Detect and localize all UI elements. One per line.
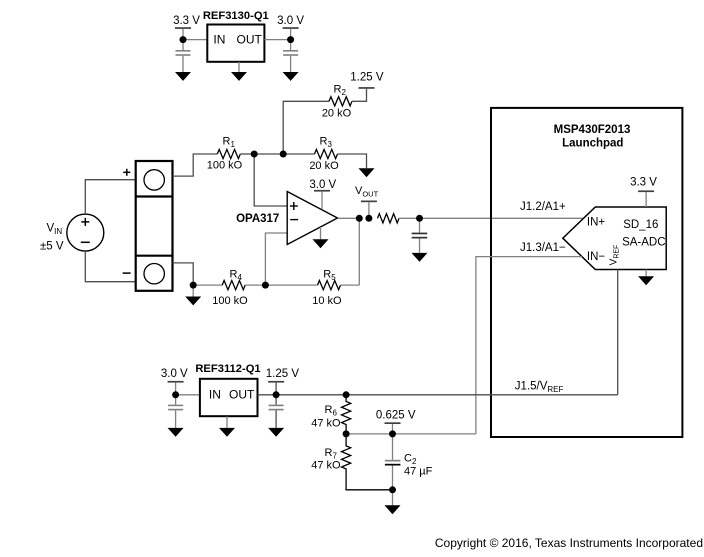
svg-text:J1.3/A1−: J1.3/A1− [520, 242, 566, 254]
svg-text:REF3112-Q1: REF3112-Q1 [195, 363, 260, 375]
ground (REF3112) [219, 428, 235, 437]
svg-text:MSP430F2013: MSP430F2013 [554, 124, 631, 136]
block MSP430F2013 Launchpad [491, 108, 682, 437]
svg-text:SA-ADC: SA-ADC [622, 237, 665, 249]
wire REF3130 OUT to 3.0V node [264, 39, 290, 41]
resistor R1 100kO [207, 136, 243, 172]
svg-text:Copyright © 2016, Texas Instru: Copyright © 2016, Texas Instruments Inco… [435, 536, 703, 550]
connector terminal block J1 [136, 161, 173, 291]
svg-text:3.3 V: 3.3 V [630, 176, 657, 188]
wire op-amp - input [265, 233, 287, 285]
wire terminal- down to feedback row [173, 263, 194, 285]
junction dot (output/feedback) [356, 215, 363, 222]
ground (3.0V bypass cap) [283, 72, 299, 81]
svg-text:1.25 V: 1.25 V [350, 72, 384, 84]
ground (ADC) [638, 276, 654, 285]
svg-text:47 µF: 47 µF [404, 466, 433, 478]
resistor (RC filter) [378, 214, 399, 223]
wire filter node to ADC IN+ [420, 217, 584, 219]
wire node A to R2 riser node [254, 153, 283, 155]
svg-text:OUT: OUT [237, 33, 263, 47]
ground (op-amp V-) [313, 239, 329, 248]
junction dot (inverting node) [262, 282, 269, 289]
wire REF3112 OUT to 1.25V node [258, 394, 277, 396]
capacitor C (3.3V bypass) [176, 50, 191, 72]
wire 3.0V node to REF3112 IN [176, 394, 200, 396]
wire node to R3 [283, 153, 314, 155]
wire op-amp + input [254, 154, 287, 206]
svg-text:3.3 V: 3.3 V [173, 15, 200, 27]
adc SD_16 SA-ADC [563, 207, 666, 270]
junction dot (R6 tap) [343, 391, 350, 398]
ground (3.0V bypass bottom) [168, 428, 184, 437]
svg-text:20 kO: 20 kO [309, 160, 339, 172]
resistor R4 100kO [212, 269, 248, 307]
junction dot (0.625V node) [343, 430, 350, 437]
wire R1 to node A [240, 153, 254, 155]
svg-text:0.625 V: 0.625 V [376, 409, 416, 421]
wire R4 to inverting node [245, 284, 265, 286]
node 1.25V rail (bottom) [266, 368, 300, 405]
junction dot (1.25V bottom node) [273, 391, 280, 398]
wire R2 riser [283, 101, 329, 154]
svg-text:100 kO: 100 kO [207, 160, 243, 172]
wire node to R4 [193, 284, 222, 286]
svg-text:IN: IN [213, 33, 225, 47]
resistor R5 10kO [312, 269, 342, 307]
svg-text:47 kO: 47 kO [311, 418, 341, 430]
junction dot (3.3V node) [180, 36, 187, 43]
wire feedback riser [358, 218, 360, 285]
svg-text:OPA317: OPA317 [236, 213, 279, 225]
svg-text:REF3130-Q1: REF3130-Q1 [203, 10, 269, 22]
junction dot (R2 riser node) [280, 151, 287, 158]
capacitor C (3.0V bypass) [283, 50, 298, 72]
svg-text:IN−: IN− [587, 251, 606, 263]
wire ADC VREF pin riser [617, 270, 619, 395]
ground (3.3V bypass cap) [175, 72, 191, 81]
capacitor (3.0V bypass bottom) [168, 405, 183, 428]
junction dot (C2 top node) [389, 430, 396, 437]
wire op-amp output [338, 217, 360, 219]
wire V_IN+ to terminal [85, 180, 135, 214]
resistor R7 47kO [311, 434, 392, 490]
label - (terminal) [123, 272, 131, 274]
svg-text:IN+: IN+ [587, 216, 606, 228]
resistor R2 20kO [322, 84, 352, 120]
ground (REF3130) [231, 72, 247, 81]
node 3.0V rail (top right) [277, 15, 304, 50]
capacitor (filter) [412, 218, 428, 253]
wire V_IN- to terminal [85, 251, 135, 282]
wire terminal+ to R1 [173, 154, 218, 176]
ground (C2) [385, 505, 401, 514]
node 1.25V rail (R2) [350, 72, 384, 89]
node 3.3V rail (top left) [173, 15, 200, 50]
wire 1.25V to MSP430 J1.5/VREF [276, 394, 618, 396]
svg-text:SD_16: SD_16 [623, 219, 658, 231]
wire inverting node to R5 [265, 284, 317, 286]
svg-text:3.0 V: 3.0 V [309, 179, 336, 191]
node 0.625V rail [376, 409, 416, 434]
node VOUT rail [355, 185, 379, 218]
ground (input node) [185, 297, 201, 306]
junction dot (3.0V node) [287, 36, 294, 43]
wire REF3112 GND pin [226, 416, 228, 428]
ground (filter cap) [412, 253, 428, 262]
svg-text:3.0 V: 3.0 V [277, 15, 304, 27]
svg-text:IN: IN [209, 388, 221, 402]
svg-text:3.0 V: 3.0 V [161, 368, 188, 380]
wire 0.625V row [346, 433, 476, 435]
label + (terminal) [123, 169, 130, 176]
svg-text:Launchpad: Launchpad [562, 138, 623, 150]
node 3.3V rail (ADC) [630, 176, 657, 207]
svg-text:100 kO: 100 kO [212, 295, 248, 307]
ground (R3) [359, 168, 375, 177]
junction dot (3.0V bottom) [172, 391, 179, 398]
junction dot (input gnd node) [190, 282, 197, 289]
ground (1.25V bypass) [268, 428, 284, 437]
svg-text:20 kO: 20 kO [322, 108, 352, 120]
junction dot (filter node) [416, 215, 423, 222]
svg-text:OUT: OUT [229, 388, 255, 402]
node 3.0V rail (op-amp V+) [309, 179, 336, 209]
wire gnd stub (input) [192, 285, 194, 296]
wire R3 to ground stub [338, 154, 367, 168]
resistor R6 47kO [311, 395, 350, 434]
op-amp U OPA317 [287, 192, 337, 245]
wire filter R to node [399, 217, 420, 219]
source V_IN ±5V [67, 214, 104, 251]
svg-text:47 kO: 47 kO [311, 460, 341, 472]
wire REF3130 GND pin [238, 62, 240, 72]
voltage reference U REF3112-Q1 [195, 363, 260, 416]
capacitor C2 47uF [385, 434, 433, 490]
junction dot (VOUT tap) [365, 215, 372, 222]
node 3.0V rail (bottom) [161, 368, 188, 405]
junction dot (C2 bottom node) [389, 486, 396, 493]
wire ADC gnd stub [645, 270, 647, 277]
wire R2 to 1.25V rail [352, 89, 367, 102]
wire op-amp V- to ground [320, 227, 322, 239]
resistor R3 20kO [309, 136, 339, 172]
svg-text:1.25 V: 1.25 V [266, 368, 300, 380]
wire C2 bottom to ground [392, 490, 394, 506]
wire 3.3V node to REF3130 IN [183, 39, 207, 41]
svg-text:10 kO: 10 kO [312, 295, 342, 307]
capacitor (1.25V bypass) [269, 405, 284, 428]
wire R5 to output riser [341, 284, 360, 286]
svg-text:J1.2/A1+: J1.2/A1+ [520, 201, 566, 213]
junction dot (op-amp + node) [251, 151, 258, 158]
voltage reference U REF3130-Q1 [203, 10, 269, 62]
svg-text:±5 V: ±5 V [40, 240, 64, 252]
wire ADC IN- to 0.625V node [476, 257, 582, 434]
